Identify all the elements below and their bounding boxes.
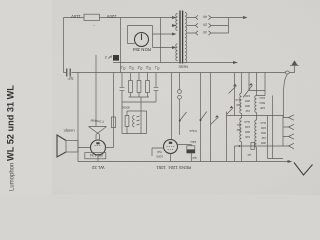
svg-text:~: ~ (93, 23, 95, 27)
svg-text:KW: KW (245, 135, 250, 139)
svg-text:200: 200 (245, 130, 250, 134)
svg-text:100: 100 (245, 125, 250, 129)
svg-text:4V: 4V (202, 30, 207, 34)
svg-text:Geh: Geh (244, 120, 250, 124)
svg-text:KW: KW (260, 106, 265, 110)
svg-text:30000: 30000 (121, 106, 130, 110)
svg-text:LW: LW (237, 128, 241, 132)
svg-text:100: 100 (261, 126, 266, 130)
svg-text:KW: KW (236, 103, 241, 107)
svg-text:LW: LW (262, 136, 266, 140)
svg-text:Lautspr.: Lautspr. (63, 128, 75, 132)
svg-text:2V: 2V (202, 22, 207, 26)
svg-text:Netztr.: Netztr. (178, 65, 188, 69)
svg-text:RGN 354: RGN 354 (132, 47, 151, 52)
svg-text:200: 200 (245, 99, 250, 103)
svg-text:Geh: Geh (235, 98, 241, 102)
svg-text:4µF: 4µF (192, 156, 197, 160)
svg-text:LW: LW (246, 109, 250, 113)
svg-text:Geh: Geh (260, 121, 266, 125)
svg-text:300: 300 (261, 141, 266, 145)
svg-text:RE 134: RE 134 (90, 153, 103, 157)
svg-text:50m: 50m (259, 101, 265, 105)
svg-text:220V: 220V (107, 14, 117, 19)
svg-text:µF 2: µF 2 (105, 55, 112, 59)
svg-text:200: 200 (261, 131, 266, 135)
svg-text:1000: 1000 (156, 155, 163, 159)
svg-text:10m: 10m (259, 96, 265, 100)
svg-text:RENS 1204 1051: RENS 1204 1051 (156, 165, 191, 170)
svg-text:4V: 4V (202, 14, 207, 18)
svg-text:WL 32: WL 32 (91, 165, 104, 170)
svg-text:ant: ant (237, 123, 241, 127)
svg-text:7µF: 7µF (157, 150, 162, 154)
svg-text:2µF: 2µF (68, 77, 74, 81)
svg-text:300: 300 (245, 104, 250, 108)
svg-text:Elko: Elko (190, 140, 196, 144)
svg-text:110V: 110V (71, 14, 81, 19)
svg-text:100: 100 (245, 94, 250, 98)
svg-text:0,5µF: 0,5µF (189, 129, 197, 133)
